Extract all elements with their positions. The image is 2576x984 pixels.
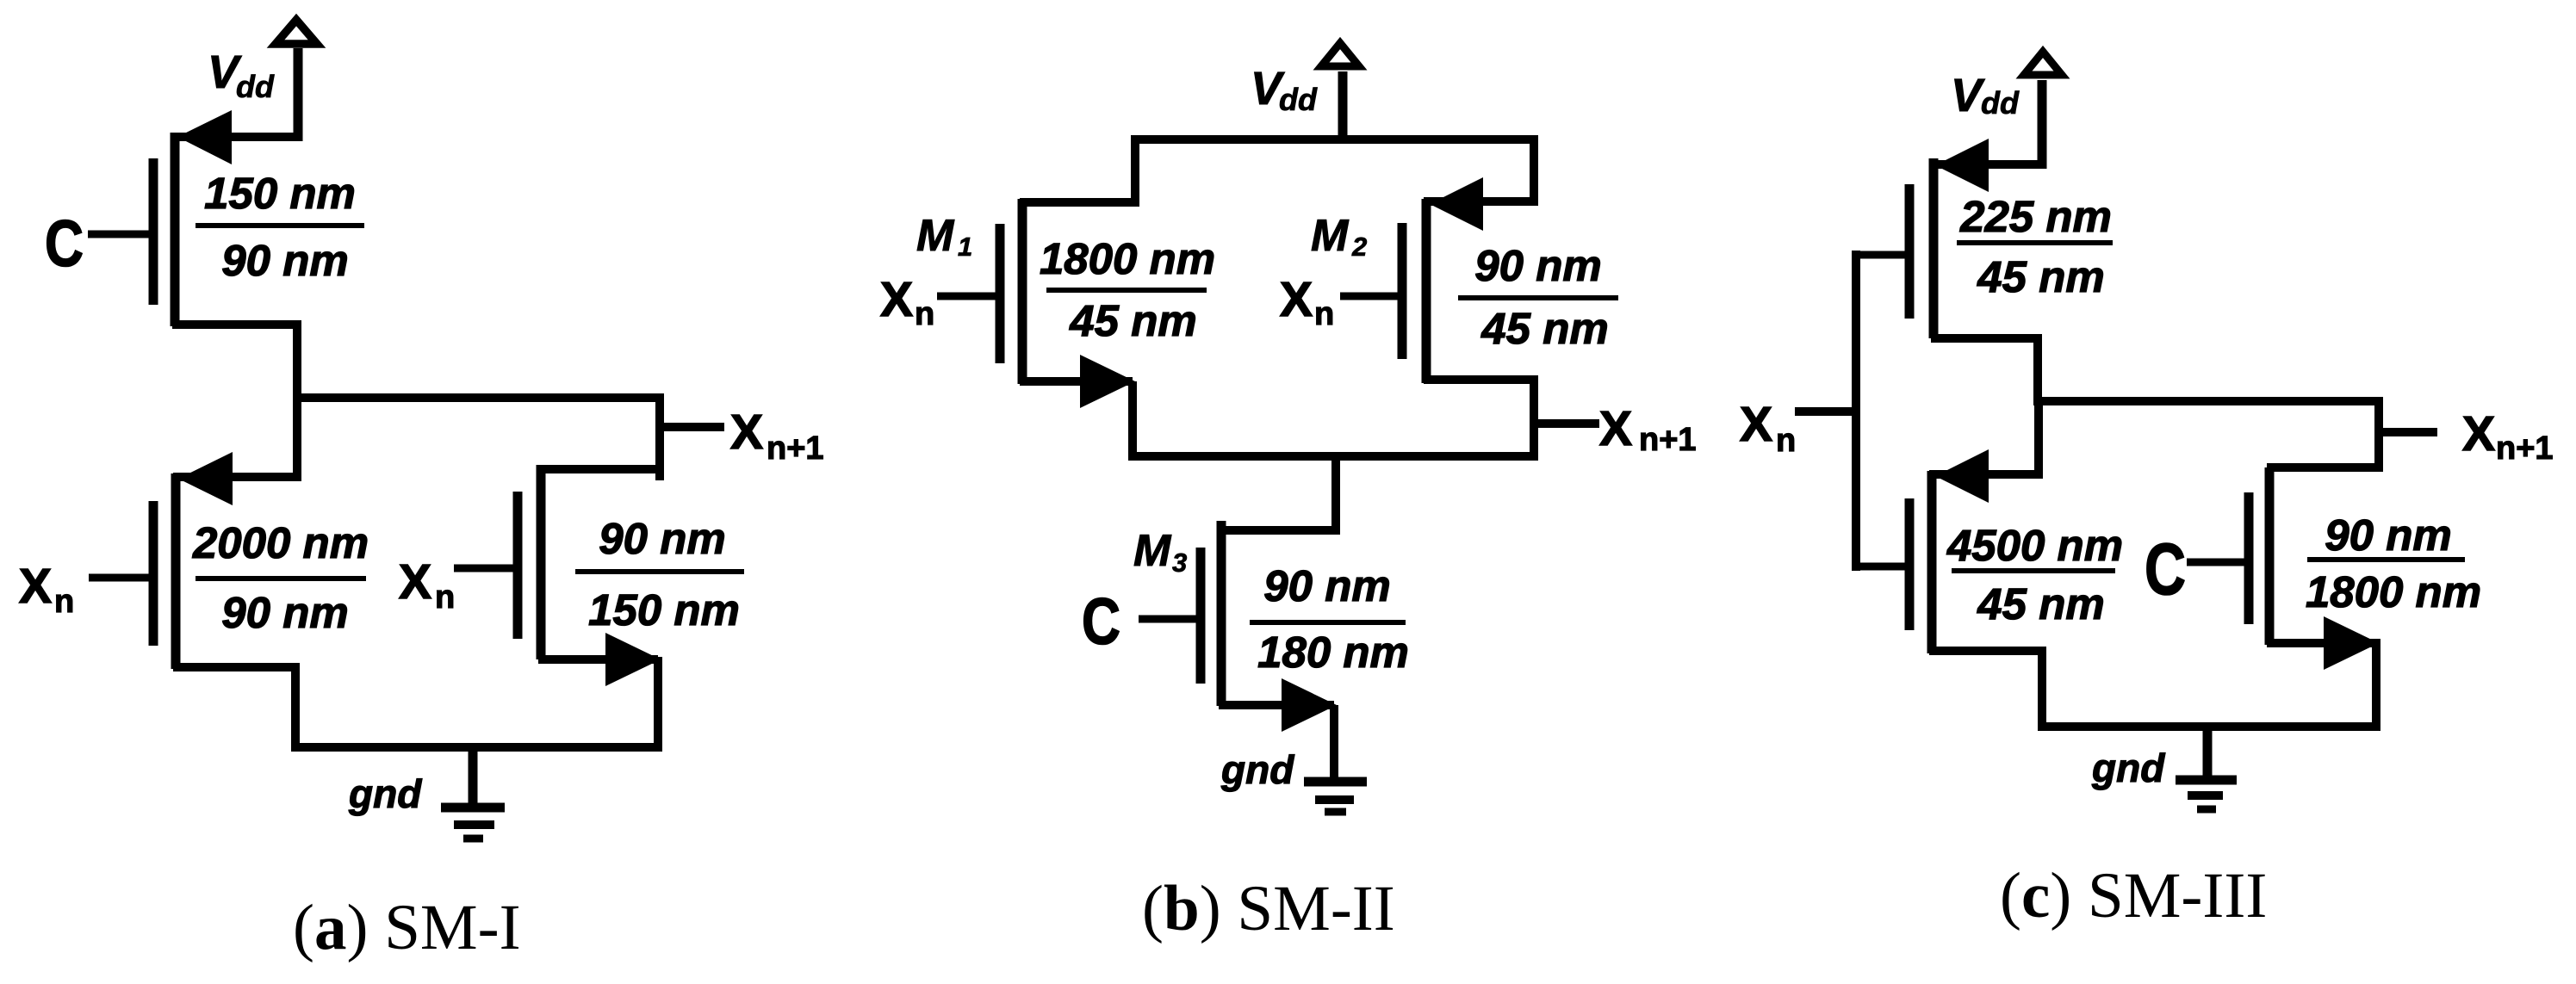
wire top rail (b) <box>1131 135 1538 144</box>
svg-text:n: n <box>1776 423 1796 459</box>
svg-text:dd: dd <box>1981 85 2020 121</box>
svg-text:90 nm: 90 nm <box>1263 561 1390 610</box>
svg-text:M: M <box>1133 526 1172 576</box>
value label 150nm/90nm (a) <box>196 169 364 285</box>
svg-text:n+1: n+1 <box>2496 430 2554 467</box>
net label Vdd (c) <box>1951 70 2020 121</box>
nmos transistor M1 (b) <box>937 199 1139 408</box>
svg-text:90 nm: 90 nm <box>221 236 348 285</box>
svg-text:C: C <box>45 207 84 281</box>
net label Vdd (b) <box>1251 63 1318 117</box>
value label 1800nm/45nm (b) <box>1040 234 1215 345</box>
gate net label Xn (b right) <box>1280 272 1334 332</box>
svg-text:225 nm: 225 nm <box>1959 192 2112 241</box>
value label 4500nm/45nm (c) <box>1946 521 2123 628</box>
ground symbol (c) <box>2176 727 2237 809</box>
pmos transistor (a) top, gate C, source wire to Vdd <box>88 110 301 326</box>
svg-text:150 nm: 150 nm <box>588 585 740 634</box>
svg-text:45 nm: 45 nm <box>1069 296 1196 345</box>
wire M1 drain to rail (b) <box>1128 381 1137 461</box>
wire right vertical node to nmos (c) <box>2374 397 2383 472</box>
pmos transistor (c) bottom <box>1856 449 2046 653</box>
wire M3 source to ground (b) <box>1330 705 1338 782</box>
wire right vertical to nmos (a) <box>655 393 664 480</box>
wire output node horizontal (a) <box>293 393 664 402</box>
svg-text:dd: dd <box>236 69 275 104</box>
wire pmos drain to rail (a) <box>291 663 300 752</box>
svg-text:(a) SM-I: (a) SM-I <box>293 892 521 963</box>
svg-text:X: X <box>880 272 913 327</box>
wire left drop to M1 (b) <box>1131 135 1139 207</box>
svg-text:n+1: n+1 <box>767 430 824 467</box>
svg-text:90 nm: 90 nm <box>2325 511 2451 560</box>
net label Xn+1 (b) <box>1599 401 1697 458</box>
designator label M1 <box>916 211 972 262</box>
svg-text:(c) SM-III: (c) SM-III <box>2000 860 2267 931</box>
pmos transistor M2 (b) <box>1340 177 1538 383</box>
wire bottom rail (b) <box>1128 452 1538 461</box>
svg-text:n: n <box>1314 296 1334 332</box>
svg-text:90 nm: 90 nm <box>221 588 348 637</box>
power symbol Vdd (c) <box>2024 52 2062 169</box>
svg-text:C: C <box>2145 529 2186 610</box>
svg-text:n: n <box>54 584 74 620</box>
svg-text:X: X <box>1599 401 1632 456</box>
svg-text:C: C <box>1082 585 1120 659</box>
value label 90nm/180nm (b) <box>1250 561 1409 677</box>
svg-text:1800 nm: 1800 nm <box>1040 234 1215 283</box>
svg-text:2: 2 <box>1351 232 1367 262</box>
gate net label Xn (b left) <box>880 272 934 332</box>
svg-text:90 nm: 90 nm <box>1474 241 1601 290</box>
svg-text:gnd: gnd <box>2091 746 2165 790</box>
wire output node horizontal (c) <box>2033 397 2383 405</box>
wire pmos top drain to node (c) <box>2033 334 2042 405</box>
svg-text:X: X <box>730 405 763 460</box>
wire M2 drain to rail (b) <box>1530 380 1538 461</box>
svg-text:45 nm: 45 nm <box>1480 304 1608 353</box>
svg-text:dd: dd <box>1279 82 1318 117</box>
svg-text:(b) SM-II: (b) SM-II <box>1142 873 1395 944</box>
wire bottom rail (a) <box>291 743 662 752</box>
wire nmos source to rail (a) <box>654 657 662 752</box>
nmos transistor (a) right, gate Xn <box>454 465 664 686</box>
svg-text:n+1: n+1 <box>1639 422 1697 458</box>
gate net label Xn (a middle) <box>399 554 455 616</box>
svg-text:X: X <box>1740 397 1772 452</box>
net label Xn+1 (a) <box>730 405 824 467</box>
value label 90nm/150nm (a) <box>575 514 744 634</box>
net label Vdd (a) <box>208 46 275 104</box>
value label 90nm/1800nm (c) <box>2306 511 2481 616</box>
svg-text:X: X <box>1280 272 1313 327</box>
svg-text:n: n <box>435 579 455 616</box>
power symbol Vdd (a) <box>276 20 317 141</box>
designator label M2 <box>1311 211 1367 262</box>
ground symbol (b) <box>1304 782 1367 812</box>
svg-text:45 nm: 45 nm <box>1977 252 2104 301</box>
svg-text:1800 nm: 1800 nm <box>2306 567 2481 616</box>
wire output lead Xn+1 (b) <box>1534 419 1599 428</box>
wire bottom rail (c) <box>2038 722 2380 731</box>
designator label M3 <box>1133 526 1187 578</box>
wire pmos bottom source to node (c) <box>2034 397 2043 479</box>
wire vertical drain/node (a) <box>293 320 301 481</box>
value label 225nm/45nm (c) <box>1957 192 2113 301</box>
wire nmos source to rail (c) <box>2372 639 2380 731</box>
svg-text:90 nm: 90 nm <box>599 514 725 563</box>
wire input lead Xn (c) <box>1795 407 1856 416</box>
wire jog to M3 channel (b) <box>1217 526 1340 535</box>
value label 90nm/45nm (b) <box>1458 241 1618 353</box>
ground symbol (a) <box>441 747 505 839</box>
svg-text:2000 nm: 2000 nm <box>192 518 369 567</box>
wire output lead Xn+1 (c) <box>2379 428 2437 436</box>
svg-text:3: 3 <box>1172 548 1187 578</box>
svg-text:M: M <box>1311 211 1350 261</box>
nmos transistor M3 (b) <box>1139 521 1337 732</box>
svg-text:X: X <box>2462 406 2495 461</box>
svg-text:gnd: gnd <box>1220 747 1294 792</box>
svg-text:n: n <box>915 296 934 332</box>
svg-text:M: M <box>916 211 955 261</box>
svg-text:gnd: gnd <box>348 771 422 816</box>
wire gate bus vertical (c) <box>1852 251 1860 571</box>
net label Xn (c) <box>1740 397 1796 459</box>
svg-text:1: 1 <box>958 232 972 262</box>
wire center drop from rail (b) <box>1331 452 1340 535</box>
svg-text:180 nm: 180 nm <box>1257 628 1409 677</box>
wire right drop to M2 (b) <box>1530 135 1538 206</box>
svg-text:X: X <box>19 559 52 614</box>
net label Xn+1 (c) <box>2462 406 2554 467</box>
svg-text:4500 nm: 4500 nm <box>1946 521 2123 570</box>
svg-text:X: X <box>399 554 431 610</box>
wire pmos bottom drain to rail (c) <box>2038 647 2046 731</box>
value label 2000nm/90nm (a) <box>192 518 369 637</box>
nmos transistor (c) right, gate C <box>2187 467 2383 670</box>
svg-text:V: V <box>1951 70 1985 121</box>
power symbol Vdd (b) <box>1321 43 1359 144</box>
wire output lead Xn+1 (a) <box>660 423 724 431</box>
pmos transistor (a) bottom-left, gate Xn <box>89 452 300 669</box>
pmos transistor (c) top <box>1856 139 2045 338</box>
svg-text:45 nm: 45 nm <box>1977 579 2104 628</box>
gate net label Xn (a left) <box>19 559 74 620</box>
svg-text:150 nm: 150 nm <box>204 169 356 218</box>
